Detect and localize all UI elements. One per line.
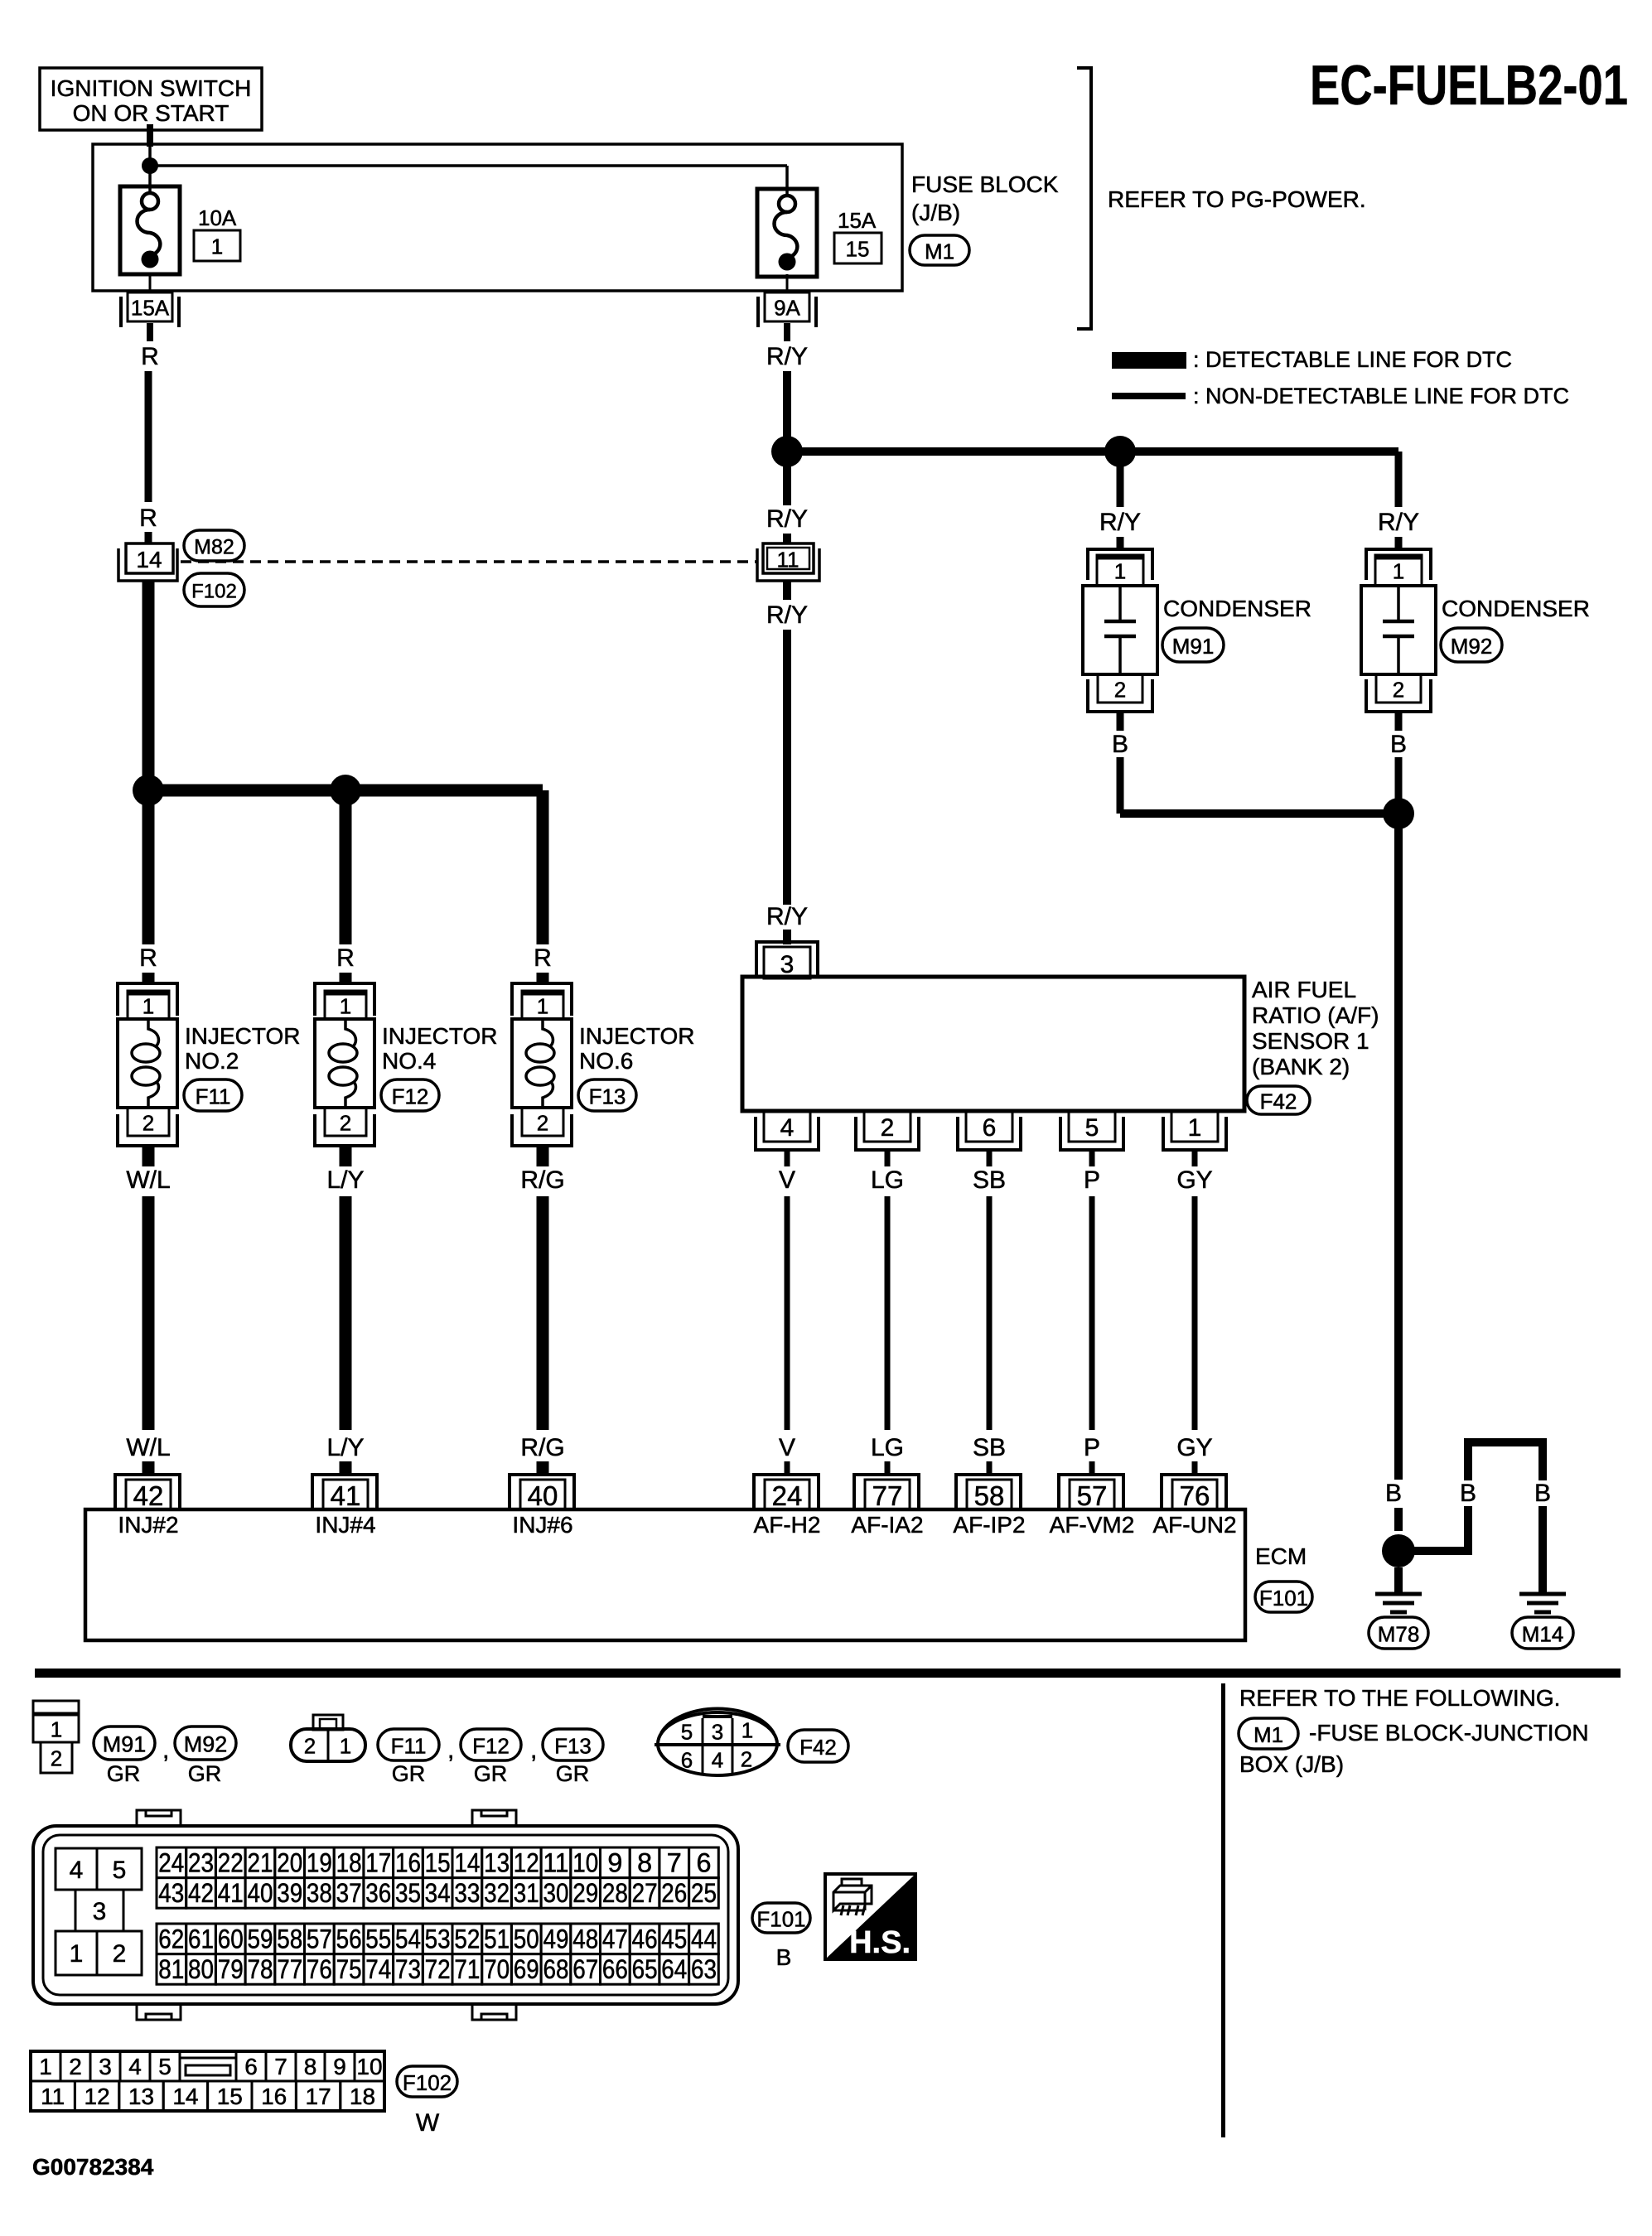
svg-text:M92: M92 <box>184 1732 228 1757</box>
svg-text:11: 11 <box>41 2084 65 2109</box>
svg-text:: NON-DETECTABLE LINE FOR DTC: : NON-DETECTABLE LINE FOR DTC <box>1193 384 1569 408</box>
svg-text:F102: F102 <box>191 581 237 603</box>
svg-text:-FUSE BLOCK-JUNCTION: -FUSE BLOCK-JUNCTION <box>1309 1720 1589 1746</box>
svg-text:BOX (J/B): BOX (J/B) <box>1239 1751 1344 1777</box>
svg-text:R/Y: R/Y <box>1099 509 1141 536</box>
svg-text:INJECTOR: INJECTOR <box>185 1023 301 1049</box>
svg-text:61: 61 <box>188 1924 214 1953</box>
svg-text:79: 79 <box>218 1954 244 1984</box>
svg-text:27: 27 <box>632 1878 658 1908</box>
svg-text:10: 10 <box>572 1847 598 1877</box>
svg-text:15A: 15A <box>838 208 877 233</box>
svg-text:5: 5 <box>681 1719 693 1744</box>
svg-text:H.S.: H.S. <box>849 1925 911 1960</box>
svg-text:25: 25 <box>691 1878 717 1908</box>
svg-text:17: 17 <box>365 1847 391 1877</box>
svg-text:F13: F13 <box>554 1733 592 1758</box>
svg-text:5: 5 <box>158 2054 171 2079</box>
svg-text:GY: GY <box>1176 1434 1212 1461</box>
svg-text:7: 7 <box>274 2054 287 2079</box>
svg-text:4: 4 <box>128 2054 142 2079</box>
svg-text:41: 41 <box>218 1878 244 1908</box>
svg-text:: DETECTABLE LINE FOR DTC: : DETECTABLE LINE FOR DTC <box>1193 347 1512 372</box>
svg-text:77: 77 <box>872 1480 903 1511</box>
svg-text:SB: SB <box>973 1166 1006 1194</box>
svg-text:37: 37 <box>336 1878 362 1908</box>
svg-text:23: 23 <box>188 1847 214 1877</box>
svg-text:15A: 15A <box>131 295 170 320</box>
svg-text:1: 1 <box>211 234 223 258</box>
svg-text:R: R <box>534 944 552 972</box>
svg-text:8: 8 <box>637 1847 652 1877</box>
svg-text:GR: GR <box>392 1761 426 1786</box>
svg-text:73: 73 <box>395 1954 421 1984</box>
svg-text:R/Y: R/Y <box>766 343 808 370</box>
svg-text:56: 56 <box>336 1924 362 1953</box>
svg-text:F11: F11 <box>391 1733 427 1758</box>
svg-text:1: 1 <box>340 1733 351 1758</box>
svg-text:4: 4 <box>780 1114 795 1142</box>
svg-text:,: , <box>530 1736 537 1764</box>
svg-text:6: 6 <box>244 2054 258 2079</box>
svg-text:REFER TO THE FOLLOWING.: REFER TO THE FOLLOWING. <box>1239 1685 1560 1711</box>
svg-text:P: P <box>1084 1166 1100 1194</box>
svg-text:60: 60 <box>218 1924 244 1953</box>
svg-text:3: 3 <box>712 1719 723 1744</box>
svg-text:2: 2 <box>741 1746 752 1771</box>
svg-text:29: 29 <box>572 1878 598 1908</box>
svg-text:9A: 9A <box>774 295 800 320</box>
svg-text:R/Y: R/Y <box>766 601 808 629</box>
svg-text:71: 71 <box>454 1954 480 1984</box>
svg-text:1: 1 <box>51 1717 62 1741</box>
svg-text:2: 2 <box>304 1733 316 1758</box>
svg-text:74: 74 <box>365 1954 391 1984</box>
svg-text:GR: GR <box>556 1761 590 1786</box>
svg-text:AF-VM2: AF-VM2 <box>1050 1512 1135 1538</box>
svg-text:M91: M91 <box>1172 634 1215 659</box>
svg-text:51: 51 <box>484 1924 510 1953</box>
svg-text:57: 57 <box>307 1924 332 1953</box>
svg-text:38: 38 <box>307 1878 332 1908</box>
svg-text:G00782384: G00782384 <box>32 2154 154 2180</box>
svg-text:INJ#2: INJ#2 <box>118 1512 178 1538</box>
svg-text:52: 52 <box>454 1924 480 1953</box>
svg-text:16: 16 <box>395 1847 421 1877</box>
svg-text:F13: F13 <box>589 1084 626 1108</box>
svg-text:76: 76 <box>1180 1480 1210 1511</box>
svg-text:4: 4 <box>70 1857 84 1884</box>
svg-text:3: 3 <box>99 2054 112 2079</box>
svg-text:F12: F12 <box>392 1084 429 1108</box>
svg-text:80: 80 <box>188 1954 214 1984</box>
svg-text:48: 48 <box>572 1924 598 1953</box>
svg-text:6: 6 <box>983 1114 997 1142</box>
svg-text:13: 13 <box>128 2084 154 2109</box>
svg-text:2: 2 <box>69 2054 82 2079</box>
svg-text:55: 55 <box>365 1924 391 1953</box>
svg-text:2: 2 <box>142 1110 154 1135</box>
svg-text:R/Y: R/Y <box>1378 509 1419 536</box>
svg-text:33: 33 <box>454 1878 480 1908</box>
svg-text:17: 17 <box>306 2084 331 2109</box>
svg-text:L/Y: L/Y <box>326 1166 364 1194</box>
svg-text:72: 72 <box>425 1954 451 1984</box>
svg-text:16: 16 <box>261 2084 287 2109</box>
svg-text:INJ#6: INJ#6 <box>512 1512 572 1538</box>
svg-text:57: 57 <box>1077 1480 1108 1511</box>
svg-text:15: 15 <box>846 236 870 261</box>
svg-text:81: 81 <box>158 1954 184 1984</box>
svg-text:NO.4: NO.4 <box>382 1048 436 1074</box>
svg-text:14: 14 <box>136 547 162 572</box>
svg-text:B: B <box>776 1944 792 1970</box>
svg-text:INJECTOR: INJECTOR <box>382 1023 498 1049</box>
svg-text:R/Y: R/Y <box>766 505 808 533</box>
svg-text:SB: SB <box>973 1434 1006 1461</box>
svg-text:1: 1 <box>741 1717 753 1742</box>
svg-text:75: 75 <box>336 1954 362 1984</box>
svg-text:2: 2 <box>1114 677 1126 702</box>
svg-text:B: B <box>1112 731 1128 758</box>
svg-text:AF-UN2: AF-UN2 <box>1152 1512 1236 1538</box>
svg-text:M1: M1 <box>925 239 954 263</box>
svg-text:18: 18 <box>336 1847 362 1877</box>
svg-text:54: 54 <box>395 1924 421 1953</box>
svg-text:78: 78 <box>248 1954 273 1984</box>
svg-text:1: 1 <box>537 993 548 1018</box>
svg-text:R: R <box>336 944 355 972</box>
svg-text:M14: M14 <box>1522 1621 1564 1646</box>
svg-text:2: 2 <box>340 1110 351 1135</box>
svg-text:21: 21 <box>248 1847 273 1877</box>
svg-text:46: 46 <box>632 1924 658 1953</box>
svg-text:(BANK 2): (BANK 2) <box>1252 1054 1350 1079</box>
svg-text:1: 1 <box>1393 558 1404 583</box>
svg-text:42: 42 <box>188 1878 214 1908</box>
svg-text:67: 67 <box>572 1954 598 1984</box>
svg-text:NO.6: NO.6 <box>579 1048 633 1074</box>
svg-text:REFER TO PG-POWER.: REFER TO PG-POWER. <box>1108 186 1366 212</box>
svg-text:B: B <box>1385 1480 1402 1507</box>
svg-text:1: 1 <box>142 993 154 1018</box>
svg-text:W: W <box>416 2109 440 2137</box>
svg-text:15: 15 <box>425 1847 451 1877</box>
svg-text:M91: M91 <box>103 1732 147 1757</box>
svg-text:SENSOR 1: SENSOR 1 <box>1252 1028 1369 1054</box>
svg-text:M1: M1 <box>1253 1722 1283 1747</box>
svg-text:18: 18 <box>350 2084 375 2109</box>
svg-text:F101: F101 <box>756 1906 805 1931</box>
svg-text:4: 4 <box>712 1747 723 1772</box>
svg-text:W/L: W/L <box>126 1434 170 1461</box>
svg-text:12: 12 <box>85 2084 110 2109</box>
svg-text:5: 5 <box>113 1857 127 1884</box>
svg-text:34: 34 <box>425 1878 451 1908</box>
svg-text:58: 58 <box>974 1480 1005 1511</box>
svg-text:69: 69 <box>514 1954 539 1984</box>
svg-text:50: 50 <box>514 1924 539 1953</box>
svg-text:B: B <box>1460 1480 1476 1507</box>
svg-text:14: 14 <box>172 2084 198 2109</box>
svg-text:GR: GR <box>107 1761 141 1786</box>
svg-text:,: , <box>162 1736 169 1764</box>
svg-text:76: 76 <box>307 1954 332 1984</box>
svg-text:6: 6 <box>697 1847 712 1877</box>
svg-text:62: 62 <box>158 1924 184 1953</box>
svg-text:42: 42 <box>133 1480 164 1511</box>
svg-text:24: 24 <box>158 1847 184 1877</box>
svg-text:IGNITION SWITCH: IGNITION SWITCH <box>51 75 252 101</box>
svg-text:2: 2 <box>113 1940 127 1968</box>
svg-text:ON OR START: ON OR START <box>73 100 229 126</box>
svg-text:77: 77 <box>277 1954 302 1984</box>
svg-text:14: 14 <box>454 1847 480 1877</box>
svg-text:F42: F42 <box>1260 1089 1297 1113</box>
svg-text:AF-IA2: AF-IA2 <box>851 1512 923 1538</box>
svg-text:R: R <box>141 343 159 370</box>
svg-text:F102: F102 <box>403 2070 452 2095</box>
svg-text:2: 2 <box>881 1114 895 1142</box>
svg-text:66: 66 <box>602 1954 628 1984</box>
svg-text:32: 32 <box>484 1878 510 1908</box>
svg-text:2: 2 <box>537 1110 548 1135</box>
svg-text:CONDENSER: CONDENSER <box>1442 596 1590 621</box>
svg-text:13: 13 <box>484 1847 510 1877</box>
svg-text:LG: LG <box>871 1166 904 1194</box>
svg-text:26: 26 <box>661 1878 687 1908</box>
svg-text:V: V <box>779 1166 795 1194</box>
svg-text:F101: F101 <box>1259 1586 1308 1611</box>
svg-text:10: 10 <box>356 2054 382 2079</box>
svg-text:31: 31 <box>514 1878 539 1908</box>
svg-text:9: 9 <box>333 2054 346 2079</box>
svg-text:11: 11 <box>543 1847 569 1877</box>
svg-text:11: 11 <box>777 547 799 572</box>
svg-text:ECM: ECM <box>1255 1543 1307 1569</box>
svg-text:AF-IP2: AF-IP2 <box>953 1512 1025 1538</box>
svg-text:P: P <box>1084 1434 1100 1461</box>
svg-text:,: , <box>447 1736 454 1764</box>
svg-text:INJECTOR: INJECTOR <box>579 1023 695 1049</box>
svg-text:10A: 10A <box>198 205 237 230</box>
svg-text:M82: M82 <box>194 536 234 559</box>
svg-text:1: 1 <box>1114 558 1126 583</box>
svg-text:R: R <box>139 505 157 532</box>
svg-text:3: 3 <box>780 951 795 978</box>
svg-text:5: 5 <box>1085 1114 1099 1142</box>
svg-text:40: 40 <box>528 1480 558 1511</box>
svg-text:AF-H2: AF-H2 <box>754 1512 821 1538</box>
svg-text:36: 36 <box>365 1878 391 1908</box>
svg-text:49: 49 <box>543 1924 569 1953</box>
svg-text:47: 47 <box>602 1924 628 1953</box>
svg-text:12: 12 <box>514 1847 539 1877</box>
svg-text:35: 35 <box>395 1878 421 1908</box>
svg-text:1: 1 <box>1188 1114 1202 1142</box>
svg-text:LG: LG <box>871 1434 904 1461</box>
svg-text:1: 1 <box>39 2054 52 2079</box>
svg-text:1: 1 <box>70 1940 84 1968</box>
svg-text:(J/B): (J/B) <box>911 200 960 225</box>
svg-text:R/G: R/G <box>520 1434 564 1461</box>
svg-text:1: 1 <box>340 993 351 1018</box>
svg-text:F42: F42 <box>799 1735 837 1760</box>
svg-text:AIR FUEL: AIR FUEL <box>1252 977 1356 1002</box>
svg-text:V: V <box>779 1434 795 1461</box>
svg-text:F12: F12 <box>472 1733 510 1758</box>
svg-text:INJ#4: INJ#4 <box>315 1512 375 1538</box>
svg-text:M78: M78 <box>1378 1621 1420 1646</box>
svg-text:39: 39 <box>277 1878 302 1908</box>
svg-text:2: 2 <box>1393 677 1404 702</box>
svg-text:58: 58 <box>277 1924 302 1953</box>
svg-text:63: 63 <box>691 1954 717 1984</box>
svg-text:28: 28 <box>602 1878 628 1908</box>
svg-text:24: 24 <box>772 1480 803 1511</box>
svg-text:70: 70 <box>484 1954 510 1984</box>
svg-text:65: 65 <box>632 1954 658 1984</box>
svg-text:GR: GR <box>188 1761 222 1786</box>
svg-text:40: 40 <box>248 1878 273 1908</box>
svg-text:64: 64 <box>661 1954 687 1984</box>
svg-text:44: 44 <box>691 1924 717 1953</box>
svg-text:GY: GY <box>1176 1166 1212 1194</box>
svg-text:B: B <box>1390 731 1407 758</box>
svg-text:7: 7 <box>667 1847 682 1877</box>
svg-text:R/G: R/G <box>520 1166 564 1194</box>
svg-text:M92: M92 <box>1451 634 1493 659</box>
svg-text:8: 8 <box>304 2054 317 2079</box>
svg-text:CONDENSER: CONDENSER <box>1163 596 1311 621</box>
svg-text:GR: GR <box>474 1761 508 1786</box>
svg-text:R: R <box>139 944 157 972</box>
svg-text:59: 59 <box>248 1924 273 1953</box>
svg-text:NO.2: NO.2 <box>185 1048 239 1074</box>
svg-text:15: 15 <box>217 2084 243 2109</box>
svg-text:20: 20 <box>277 1847 302 1877</box>
svg-text:L/Y: L/Y <box>326 1434 364 1461</box>
svg-text:3: 3 <box>93 1898 107 1925</box>
svg-text:F11: F11 <box>196 1084 231 1108</box>
svg-text:RATIO (A/F): RATIO (A/F) <box>1252 1002 1379 1028</box>
svg-text:43: 43 <box>158 1878 184 1908</box>
svg-text:53: 53 <box>425 1924 451 1953</box>
svg-text:FUSE BLOCK: FUSE BLOCK <box>911 171 1059 197</box>
svg-text:B: B <box>1534 1480 1551 1507</box>
svg-text:2: 2 <box>51 1746 62 1770</box>
svg-text:6: 6 <box>681 1747 693 1772</box>
svg-text:19: 19 <box>307 1847 332 1877</box>
svg-text:9: 9 <box>607 1847 622 1877</box>
svg-text:45: 45 <box>661 1924 687 1953</box>
svg-text:EC-FUELB2-01: EC-FUELB2-01 <box>1310 54 1628 117</box>
svg-text:R/Y: R/Y <box>766 903 808 930</box>
svg-text:30: 30 <box>543 1878 569 1908</box>
svg-text:41: 41 <box>331 1480 361 1511</box>
svg-text:W/L: W/L <box>126 1166 170 1194</box>
svg-text:68: 68 <box>543 1954 569 1984</box>
svg-text:22: 22 <box>218 1847 244 1877</box>
